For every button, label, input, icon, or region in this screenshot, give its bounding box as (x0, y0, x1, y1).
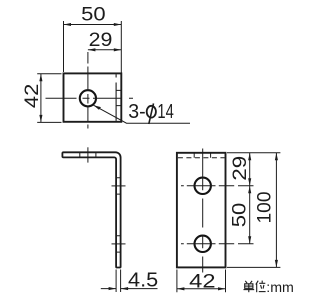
dimension 50 right arrow (114, 23, 122, 26)
dimension 100 bottom arrow (275, 260, 278, 268)
front view hidden hole edge ticks (194, 153, 210, 158)
top hole horizontal centerline (46, 97, 134, 99)
front view top extension line (227, 152, 280, 154)
side view upper hole centerline (112, 185, 126, 187)
unit note kanji i (U+4F4D) (256, 281, 266, 293)
side view L profile outline (62, 152, 120, 267)
front view vertical centerline (202, 149, 204, 273)
dimension 29 right top arrow (248, 153, 251, 161)
dimension 50 line (64, 24, 122, 26)
top view bend inner line (115, 74, 117, 121)
dimension 4.5 lines (101, 288, 158, 290)
svg-text::mm: :mm (266, 280, 294, 296)
front view lower hole (195, 236, 211, 252)
front view lower hole horizontal centerline and extension (181, 243, 254, 245)
dimension 29 right line (249, 153, 251, 186)
dimension 4.5 extension lines (116, 270, 121, 293)
svg-text:29: 29 (229, 156, 251, 181)
svg-text:42: 42 (21, 84, 43, 108)
dimension 42 bottom left arrow (177, 287, 185, 290)
dimension 29 right bottom arrow (248, 178, 251, 186)
front view hidden bend line (178, 157, 225, 159)
svg-text:42: 42 (189, 271, 215, 293)
side view top leg hole edge ticks (80, 152, 96, 157)
hole in top plate (80, 90, 96, 106)
top hole vertical centerline (87, 52, 89, 129)
leader arrowhead (94, 105, 102, 110)
dimension 29 right arrow (114, 48, 122, 51)
dimension 42 top arrow (39, 74, 42, 82)
side view lower hole edge ticks (116, 236, 121, 252)
leader line to hole label (94, 105, 191, 123)
front view plate outline (177, 153, 226, 268)
dimension 50 left arrow (64, 23, 72, 26)
dimension 42 bottom right arrow (218, 287, 226, 290)
dimension 42 bottom extension lines (177, 270, 226, 293)
svg-text:100: 100 (253, 191, 275, 223)
dimension 50 right bottom arrow (248, 236, 251, 244)
front view bottom extension line (227, 266, 280, 268)
top view plate outline (64, 73, 122, 121)
dimension 50 right line (249, 186, 251, 244)
dimension 50 extension lines (64, 21, 122, 73)
front view upper hole (195, 178, 211, 194)
dimension 42 left extension lines (37, 74, 61, 123)
svg-text:50: 50 (81, 4, 106, 26)
svg-text:14: 14 (157, 101, 173, 123)
svg-text:4.5: 4.5 (128, 270, 158, 292)
svg-text:50: 50 (229, 203, 251, 228)
dimension 50 right top arrow (248, 186, 251, 194)
top view hidden hole edge ticks (116, 90, 121, 105)
dimension 100 top arrow (275, 153, 278, 161)
dimension 29 line (88, 49, 121, 51)
dimension 100 line (275, 153, 277, 268)
dimension 4.5 left outside arrow (109, 287, 117, 290)
hole callout phi symbol (147, 103, 156, 124)
dimension 29 left arrow (88, 48, 96, 51)
side view upper hole edge ticks (116, 178, 121, 194)
svg-text:3-: 3- (128, 101, 145, 123)
side view top leg hole centerline (87, 147, 89, 162)
unit note kanji tan (U+5358) (244, 281, 255, 292)
front view upper hole horizontal centerline and extension (181, 185, 254, 187)
dimension 42 bottom line (177, 288, 226, 290)
dimension 42 bottom arrow (39, 115, 42, 123)
dimension 42 left line (40, 74, 42, 123)
dimension 4.5 right outside arrow (121, 287, 129, 290)
side view lower hole centerline (112, 243, 126, 245)
svg-text:29: 29 (89, 29, 113, 51)
